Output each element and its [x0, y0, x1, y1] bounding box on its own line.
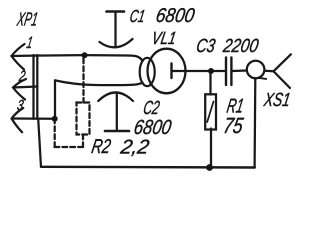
svg-text:XP1: XP1: [15, 10, 39, 31]
svg-text:2200: 2200: [221, 35, 261, 57]
svg-text:3: 3: [16, 96, 26, 113]
svg-text:VL1: VL1: [150, 30, 177, 49]
svg-text:1: 1: [25, 34, 34, 52]
svg-text:2,2: 2,2: [118, 137, 151, 159]
svg-text:R2: R2: [90, 135, 113, 158]
svg-text:75: 75: [222, 114, 246, 138]
svg-text:2: 2: [17, 67, 27, 84]
svg-text:C1: C1: [128, 7, 146, 27]
svg-text:6800: 6800: [132, 115, 173, 138]
svg-text:C3: C3: [195, 35, 218, 56]
svg-text:XS1: XS1: [262, 89, 292, 111]
svg-text:6800: 6800: [154, 4, 197, 26]
